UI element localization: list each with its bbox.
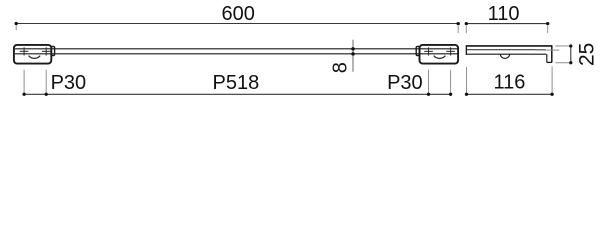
side view leg bottom edge bbox=[547, 61, 552, 63]
left bracket body bbox=[14, 45, 51, 64]
dimension line 600 bbox=[15, 22, 460, 33]
side view left edge bbox=[465, 45, 467, 55]
right bracket arc notch bbox=[434, 56, 446, 59]
bottom extension lines bbox=[24, 66, 552, 94]
right bracket body bbox=[420, 45, 459, 64]
svg-text:P518: P518 bbox=[213, 72, 260, 94]
svg-text:P30: P30 bbox=[387, 72, 423, 94]
side view profile bbox=[466, 45, 552, 62]
dimension 25 bbox=[555, 44, 572, 64]
svg-text:P30: P30 bbox=[51, 72, 87, 94]
side view inner line bbox=[467, 49, 546, 51]
left bracket hole cross 2 bbox=[42, 47, 51, 55]
leader line through side view bbox=[535, 49, 559, 51]
left bracket hole cross 1 bbox=[20, 47, 29, 55]
bottom dimension dots bbox=[22, 93, 553, 96]
side view bottom edge bbox=[466, 53, 546, 55]
side view leg inner edge bbox=[546, 54, 548, 62]
side view arc notch bbox=[500, 55, 509, 59]
wire: rail top edge bbox=[15, 48, 458, 50]
dimension line 110 bbox=[465, 22, 550, 33]
right bracket hole cross 2 bbox=[446, 47, 455, 55]
right bracket hole cross 1 bbox=[424, 47, 433, 55]
right bracket ear bbox=[416, 46, 419, 55]
bottom dimension line 116 bbox=[467, 93, 553, 95]
svg-text:110: 110 bbox=[488, 3, 520, 25]
wire: rail bottom edge bbox=[15, 53, 458, 55]
left bracket ear bbox=[51, 46, 54, 55]
svg-text:25: 25 bbox=[575, 43, 598, 66]
side view top edge bbox=[466, 45, 552, 47]
svg-text:600: 600 bbox=[222, 3, 255, 25]
svg-text:8: 8 bbox=[330, 62, 352, 73]
dimension 8 (rail thickness) bbox=[351, 40, 355, 72]
side view right edge bbox=[551, 45, 553, 62]
svg-text:116: 116 bbox=[494, 71, 526, 93]
bottom dimension line P30/P518/P30 bbox=[24, 93, 451, 95]
left bracket arc notch bbox=[29, 56, 41, 59]
